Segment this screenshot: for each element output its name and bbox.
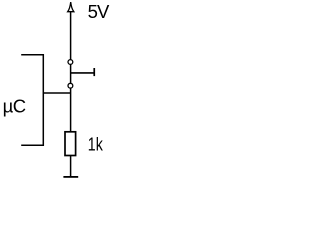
- ground bar: [63, 176, 78, 178]
- pin tick (terminal): [93, 68, 95, 76]
- node: open terminal circle lower: [68, 83, 73, 88]
- svg-text:1k: 1k: [88, 134, 104, 155]
- resistor R1 body: [65, 132, 76, 156]
- wire: main vertical 5V net: [70, 11, 72, 132]
- wire: branch to pin tick: [71, 72, 95, 74]
- power symbol: 5V up-arrow: [68, 2, 74, 12]
- svg-text:µC: µC: [3, 96, 26, 117]
- node: open terminal circle upper: [68, 60, 73, 65]
- microcontroller U1 box (partial outline): [21, 55, 43, 145]
- svg-text:5V: 5V: [88, 1, 110, 22]
- wire: resistor to ground: [70, 156, 72, 177]
- wire: µC pin to 5V net: [43, 92, 70, 94]
